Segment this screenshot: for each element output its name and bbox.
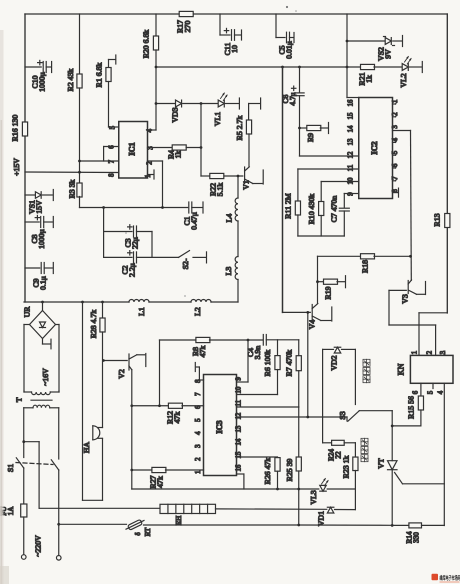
svg-text:6: 6 xyxy=(392,163,399,167)
svg-text:1A: 1A xyxy=(7,506,15,516)
svg-text:0.1μ: 0.1μ xyxy=(39,276,48,290)
svg-text:VL1: VL1 xyxy=(213,112,222,126)
svg-text:VD3: VD3 xyxy=(171,107,180,122)
svg-text:2: 2 xyxy=(195,457,202,461)
svg-text:12: 12 xyxy=(235,412,242,419)
svg-text:~16V: ~16V xyxy=(41,368,50,386)
svg-text:R11 2M: R11 2M xyxy=(284,193,293,219)
svg-text:S3: S3 xyxy=(338,411,347,419)
svg-text:1: 1 xyxy=(195,471,202,474)
svg-text:R13: R13 xyxy=(433,213,442,226)
svg-text:R23 1k: R23 1k xyxy=(342,456,351,479)
svg-text:7: 7 xyxy=(109,159,116,163)
svg-text:~220V: ~220V xyxy=(34,535,43,557)
svg-text:4.7μ: 4.7μ xyxy=(288,92,297,105)
svg-text:R25 39: R25 39 xyxy=(285,459,294,482)
svg-text:+15V: +15V xyxy=(12,158,21,176)
svg-text:2.2μ: 2.2μ xyxy=(128,263,137,277)
svg-text:47k: 47k xyxy=(173,412,182,424)
svg-text:0.47μ: 0.47μ xyxy=(190,212,199,230)
svg-text:1: 1 xyxy=(412,351,419,354)
svg-text:R2 43k: R2 43k xyxy=(66,69,75,92)
svg-text:1k: 1k xyxy=(365,75,374,83)
svg-text:9V: 9V xyxy=(384,49,393,59)
svg-text:HA: HA xyxy=(82,442,91,454)
svg-text:330: 330 xyxy=(413,532,421,543)
svg-text:1: 1 xyxy=(392,100,399,103)
svg-text:S1: S1 xyxy=(6,464,15,472)
svg-text:R5 2.7k: R5 2.7k xyxy=(235,116,244,141)
svg-text:L1: L1 xyxy=(137,307,146,316)
svg-text:IC3: IC3 xyxy=(215,420,224,433)
svg-text:IC2: IC2 xyxy=(370,141,379,154)
svg-text:R1 6.8k: R1 6.8k xyxy=(95,63,104,88)
svg-text:5: 5 xyxy=(428,390,435,394)
svg-text:11: 11 xyxy=(348,165,355,172)
svg-text:VD1: VD1 xyxy=(317,511,326,526)
svg-text:10: 10 xyxy=(235,386,242,393)
svg-text:VL3: VL3 xyxy=(309,490,318,504)
svg-text:15: 15 xyxy=(348,112,355,119)
svg-text:6: 6 xyxy=(413,390,420,394)
svg-text:V3: V3 xyxy=(401,294,410,304)
svg-text:L2: L2 xyxy=(193,307,202,316)
svg-text:4: 4 xyxy=(438,390,445,394)
svg-text:R18: R18 xyxy=(361,260,370,273)
svg-text:5: 5 xyxy=(195,418,202,422)
svg-text:R20 6.8k: R20 6.8k xyxy=(142,30,151,59)
svg-text:S2-: S2- xyxy=(181,258,190,269)
svg-text:14: 14 xyxy=(235,438,242,445)
svg-text:7: 7 xyxy=(195,392,202,396)
svg-text:R15 56: R15 56 xyxy=(407,396,416,419)
svg-text:1000μ: 1000μ xyxy=(38,72,47,92)
svg-text:9: 9 xyxy=(235,377,242,381)
svg-text:5: 5 xyxy=(392,150,399,154)
svg-text:UR: UR xyxy=(23,306,32,318)
svg-text:10: 10 xyxy=(230,45,239,53)
svg-text:16: 16 xyxy=(235,464,242,471)
svg-text:R9: R9 xyxy=(306,133,315,142)
svg-text:IC1: IC1 xyxy=(128,142,137,155)
svg-text:L3: L3 xyxy=(224,267,233,276)
svg-text:13: 13 xyxy=(235,425,242,432)
svg-text:R7 470k: R7 470k xyxy=(285,350,294,377)
svg-text:EH: EH xyxy=(175,516,183,526)
svg-text:47k: 47k xyxy=(198,346,207,358)
svg-text:R19: R19 xyxy=(324,286,333,299)
svg-text:V4: V4 xyxy=(308,320,317,330)
svg-text:10: 10 xyxy=(348,177,355,184)
svg-text:4: 4 xyxy=(195,431,202,435)
svg-text:VL2: VL2 xyxy=(399,73,408,87)
svg-text:5: 5 xyxy=(110,125,117,129)
svg-text:R10 430k: R10 430k xyxy=(307,194,316,225)
svg-text:V2: V2 xyxy=(117,369,126,379)
svg-text:13: 13 xyxy=(348,138,355,145)
svg-text:KN: KN xyxy=(397,364,406,376)
svg-text:R16 130: R16 130 xyxy=(11,115,20,142)
svg-text:R28 4.7k: R28 4.7k xyxy=(89,310,98,339)
svg-text:270: 270 xyxy=(183,21,192,33)
svg-text:7: 7 xyxy=(392,176,399,180)
svg-text:6: 6 xyxy=(109,145,116,149)
svg-text:4: 4 xyxy=(392,137,399,141)
svg-text:47k: 47k xyxy=(156,476,165,488)
svg-text:2: 2 xyxy=(427,350,434,354)
svg-text:8: 8 xyxy=(109,173,116,177)
svg-text:14: 14 xyxy=(348,125,355,132)
svg-text:R3 3k: R3 3k xyxy=(68,179,77,198)
svg-text:L4: L4 xyxy=(225,214,234,223)
svg-text:15V: 15V xyxy=(35,200,44,214)
svg-text:C7 470n: C7 470n xyxy=(330,196,339,223)
svg-text:T: T xyxy=(15,397,24,402)
svg-text:16: 16 xyxy=(348,99,355,106)
svg-text:5.1k: 5.1k xyxy=(216,183,225,197)
svg-text:12: 12 xyxy=(348,151,355,158)
svg-text:11: 11 xyxy=(235,400,242,407)
svg-text:VD2: VD2 xyxy=(330,355,339,370)
svg-text:R6 100k: R6 100k xyxy=(263,350,272,377)
svg-text:VT: VT xyxy=(377,458,386,469)
svg-text:3: 3 xyxy=(392,125,399,129)
svg-text:3: 3 xyxy=(440,350,447,354)
svg-text:RT: RT xyxy=(144,527,152,536)
svg-text:22μ: 22μ xyxy=(131,237,140,249)
svg-text:1000μ: 1000μ xyxy=(37,229,46,249)
svg-text:3: 3 xyxy=(195,444,202,448)
svg-text:V1: V1 xyxy=(242,180,251,190)
svg-text:维库电子市场网: 维库电子市场网 xyxy=(440,574,460,582)
svg-text:2: 2 xyxy=(392,112,399,116)
svg-text:0.01μ: 0.01μ xyxy=(285,41,294,59)
svg-text:1k: 1k xyxy=(174,151,183,159)
svg-text:R26 47k: R26 47k xyxy=(263,458,272,485)
svg-text:3.9n: 3.9n xyxy=(253,346,262,360)
